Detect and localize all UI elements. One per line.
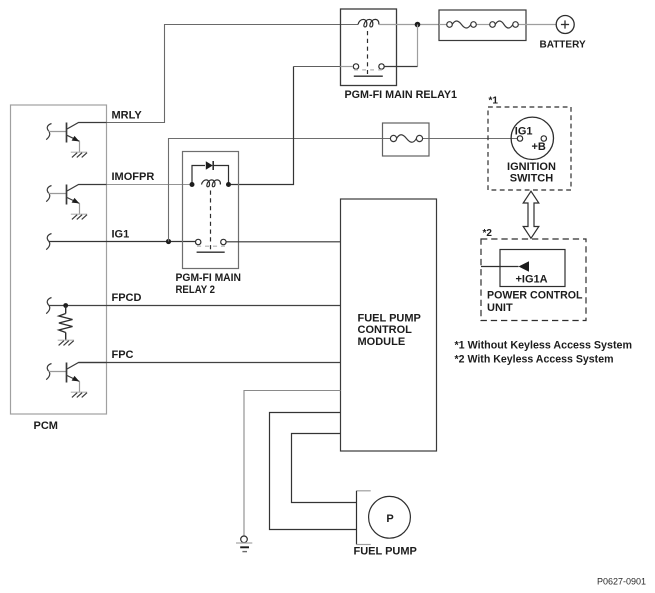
wire FPC net (79, 362, 341, 364)
svg-text:POWER CONTROL: POWER CONTROL (487, 290, 583, 302)
wire FPCM to fuel pump plus (292, 434, 357, 503)
wire IMOFPR net (107, 184, 191, 186)
ignition switch dashed box (488, 107, 571, 190)
relay K2 coil-to-contact dashed link (210, 191, 212, 251)
node IG1 junction (166, 239, 171, 244)
fuel pump motor M1 (369, 496, 411, 538)
FPCM box (FUEL PUMP CONTROL MODULE) (341, 199, 437, 451)
ignition switch SW1 (511, 117, 553, 159)
svg-text:*2: *2 (483, 228, 493, 239)
fuse box F1 F2 (main fuses) (439, 10, 526, 41)
PCM box (11, 105, 107, 414)
internal connection symbol (FPCD) (46, 298, 51, 314)
svg-text:FPCD: FPCD (112, 292, 142, 304)
svg-text:*2 With Keyless Access System: *2 With Keyless Access System (455, 354, 614, 366)
ground (R1) (58, 340, 74, 345)
+IG1A input triangle (519, 261, 530, 271)
relay K2 contacts (196, 239, 227, 252)
fuel pump connector bracket (357, 491, 371, 545)
svg-text:IGNITION: IGNITION (507, 161, 556, 173)
wire +IG1A (481, 266, 519, 268)
relay K2 box (PGM-FI MAIN RELAY 2) (183, 152, 239, 269)
svg-text:IG1: IG1 (112, 229, 130, 241)
svg-text:+IG1A: +IG1A (516, 274, 548, 286)
relay K1 contacts (353, 64, 384, 76)
svg-text:BATTERY: BATTERY (540, 40, 586, 51)
svg-text:*1: *1 (489, 96, 499, 107)
relay K2 coil (202, 180, 221, 187)
svg-text:FUEL PUMP: FUEL PUMP (354, 546, 417, 558)
wire IG1 to fuse (169, 139, 391, 242)
internal connection symbol (IG1) (46, 234, 51, 250)
transistor Q1 (MRLY driver) (46, 123, 106, 152)
ground (earth, fuel pump module) (236, 536, 252, 552)
svg-text:IMOFPR: IMOFPR (112, 171, 155, 183)
svg-text:UNIT: UNIT (487, 302, 513, 314)
relay K1 box (PGM-FI MAIN RELAY1) (341, 9, 397, 86)
power control unit inner box (500, 250, 565, 287)
resistor R1 (FPCD pull-down) (59, 306, 73, 340)
wire K2 contact to FPCM (227, 241, 341, 243)
svg-text:PGM-FI MAIN: PGM-FI MAIN (176, 272, 242, 284)
power control unit dashed box (481, 239, 586, 321)
wire K1 coil to battery node (379, 24, 439, 26)
svg-text:+B: +B (532, 141, 546, 153)
wire fuse to ignition switch (423, 138, 518, 140)
wire MRLY net (107, 25, 359, 123)
diode D1 (192, 161, 229, 185)
transistor Q2 (IMOFPR driver) (46, 185, 106, 215)
svg-text:*1 Without Keyless Access Syst: *1 Without Keyless Access System (455, 340, 633, 352)
transistor Q3 (FPC driver) (46, 363, 106, 393)
wire IG1 net (49, 241, 197, 243)
svg-text:PCM: PCM (34, 420, 58, 432)
fuse F3 (No.4 fuse) (383, 123, 430, 156)
relay K1 coil (358, 19, 379, 27)
node K2 coil right (226, 182, 231, 187)
node FPCD junction (63, 303, 68, 308)
wire fuse to battery (526, 24, 556, 26)
svg-text:MRLY: MRLY (112, 110, 143, 122)
node battery junction (415, 22, 421, 28)
svg-text:FPC: FPC (112, 349, 134, 361)
svg-text:MODULE: MODULE (358, 336, 406, 348)
wire FPCM to fuel pump minus (270, 413, 357, 530)
svg-text:CONTROL: CONTROL (358, 324, 413, 336)
svg-text:SWITCH: SWITCH (510, 173, 553, 185)
double arrow (alternative link) (523, 191, 539, 238)
svg-text:P0627-0901: P0627-0901 (597, 577, 646, 587)
relay K1 coil-to-contact dashed link (367, 31, 369, 74)
ground (Q2 emitter) (71, 214, 87, 219)
ground (Q1 emitter) (71, 152, 87, 157)
wire K1 contact to relay K2 coil (341, 66, 354, 68)
wire FPCM ground out (244, 391, 341, 537)
wire FPCD net (49, 305, 341, 307)
svg-text:RELAY 2: RELAY 2 (176, 284, 216, 296)
battery terminal (556, 16, 574, 34)
ground (Q3 emitter) (71, 392, 87, 397)
svg-text:FUEL PUMP: FUEL PUMP (358, 313, 421, 325)
node K2 coil left (190, 182, 195, 187)
svg-text:PGM-FI MAIN RELAY1: PGM-FI MAIN RELAY1 (345, 89, 458, 101)
wire junction to K1 contact (417, 25, 419, 67)
svg-text:P: P (386, 513, 393, 525)
svg-text:IG1: IG1 (515, 126, 533, 138)
